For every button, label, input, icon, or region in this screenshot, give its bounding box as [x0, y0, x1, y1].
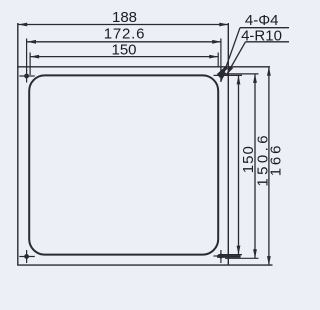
svg-text:4-R10: 4-R10: [241, 28, 282, 45]
svg-text:172.6: 172.6: [104, 26, 146, 43]
svg-text:188: 188: [112, 9, 137, 26]
svg-text:166: 166: [268, 143, 285, 176]
svg-text:4-Φ4: 4-Φ4: [245, 12, 279, 29]
svg-text:150: 150: [111, 42, 136, 59]
